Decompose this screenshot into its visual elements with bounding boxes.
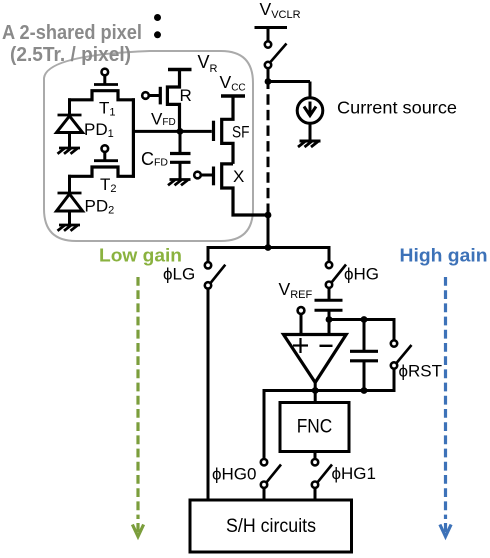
- transistor X: [194, 164, 269, 215]
- capacitor HG: [315, 300, 343, 321]
- svg-text:T1: T1: [99, 99, 116, 119]
- S/H circuits box: [190, 500, 352, 552]
- wire shared column T1/T2: [132, 98, 135, 178]
- wire RST switch down: [393, 369, 396, 392]
- terminal VREF: [298, 307, 305, 314]
- node current source tap: [265, 78, 272, 85]
- ground PD2: [58, 225, 81, 231]
- svg-text:T2: T2: [100, 175, 117, 195]
- wire RST branch down: [393, 318, 396, 340]
- svg-text:R: R: [180, 86, 192, 105]
- arrow low-gain path: [132, 277, 143, 537]
- wire PD1 down: [68, 98, 71, 116]
- wire feedback bottom horizontal: [264, 389, 394, 392]
- svg-text:S/H circuits: S/H circuits: [226, 516, 316, 537]
- svg-text:VVCLR: VVCLR: [260, 0, 301, 21]
- ground CFD: [168, 180, 191, 186]
- transistor T1: [68, 69, 135, 100]
- op-amp U1: [284, 335, 347, 383]
- node feedback cap bottom: [361, 387, 368, 394]
- wire to current source: [268, 80, 310, 83]
- svg-text:VCC: VCC: [220, 72, 246, 94]
- transistor R: [142, 68, 179, 131]
- svg-text:ϕHG: ϕHG: [344, 265, 379, 284]
- wire FNC to HG1: [314, 451, 317, 460]
- wire to LG switch: [207, 246, 210, 262]
- switch phiRST: [391, 340, 412, 368]
- node FD: [177, 128, 184, 135]
- svg-text:Current source: Current source: [337, 98, 457, 118]
- svg-text:ϕLG: ϕLG: [163, 265, 195, 284]
- wire current source down: [309, 82, 312, 99]
- transistor SF: [214, 96, 234, 164]
- node distribution: [265, 244, 272, 251]
- switch phiHG: [326, 262, 346, 288]
- svg-text:A 2-shared pixel: A 2-shared pixel: [2, 22, 142, 44]
- svg-text:CFD: CFD: [141, 149, 168, 169]
- ground current source: [298, 141, 321, 147]
- wire VREF to opamp plus: [300, 314, 303, 334]
- ellipsis dots: [154, 14, 161, 38]
- arrow high-gain path: [440, 277, 451, 537]
- svg-text:ϕHG0: ϕHG0: [212, 465, 256, 484]
- node feedback cap top: [361, 316, 368, 323]
- node inverting input: [326, 316, 333, 323]
- svg-text:X: X: [233, 167, 244, 186]
- svg-text:Low gain: Low gain: [99, 245, 182, 266]
- VVCLR supply bar: [255, 26, 288, 29]
- ground PD1: [58, 148, 81, 154]
- svg-text:VREF: VREF: [279, 279, 313, 301]
- VCC supply bar: [221, 94, 245, 98]
- transistor T2: [68, 145, 135, 176]
- wire node to opamp minus: [328, 320, 331, 335]
- wire current source to ground: [309, 123, 312, 140]
- FNC box: [280, 403, 349, 452]
- pixel box outline: [44, 51, 253, 241]
- svg-text:ϕHG1: ϕHG1: [332, 464, 376, 483]
- VR supply bar: [168, 68, 192, 72]
- switch phiHG1: [312, 459, 332, 488]
- svg-text:(2.5Tr. / pixel): (2.5Tr. / pixel): [10, 44, 131, 66]
- svg-text:ϕRST: ϕRST: [399, 361, 443, 380]
- svg-text:FNC: FNC: [297, 417, 333, 438]
- wire HG0 to S/H: [263, 488, 266, 500]
- capacitor feedback: [350, 320, 378, 391]
- wire LG switch to S/H: [207, 289, 210, 500]
- wire VVCLR to switch: [267, 28, 270, 42]
- wire to HG switch: [328, 246, 331, 262]
- node bus/X junction: [265, 212, 272, 219]
- photodiode PD2: [57, 193, 83, 225]
- svg-text:SF: SF: [232, 123, 250, 142]
- wire distribution horizontal: [208, 246, 329, 249]
- switch phiHG0: [261, 459, 281, 488]
- wire switch to node: [267, 68, 270, 83]
- current source I1: [297, 98, 323, 124]
- capacitor CFD: [170, 131, 191, 179]
- wire opamp output down: [314, 381, 317, 402]
- svg-text:High gain: High gain: [400, 245, 488, 266]
- node opamp output: [312, 387, 319, 394]
- switch VCLR: [265, 41, 287, 68]
- switch phiLG: [205, 262, 226, 289]
- wire FD horizontal: [134, 130, 212, 133]
- wire PD2 down: [68, 175, 71, 194]
- wire HG1 to S/H: [314, 488, 317, 500]
- svg-text:VR: VR: [198, 52, 218, 75]
- photodiode PD1: [57, 115, 83, 147]
- svg-text:PD1: PD1: [84, 120, 114, 140]
- wire left branch to HG0: [263, 389, 266, 459]
- wire dashed bus VCLR: [267, 82, 270, 90]
- svg-text:PD2: PD2: [85, 197, 115, 217]
- wire node to RST branch: [329, 318, 394, 321]
- wire HG switch to capacitor: [328, 288, 331, 300]
- wire bus down: [267, 215, 270, 249]
- svg-text:VFD: VFD: [151, 109, 176, 128]
